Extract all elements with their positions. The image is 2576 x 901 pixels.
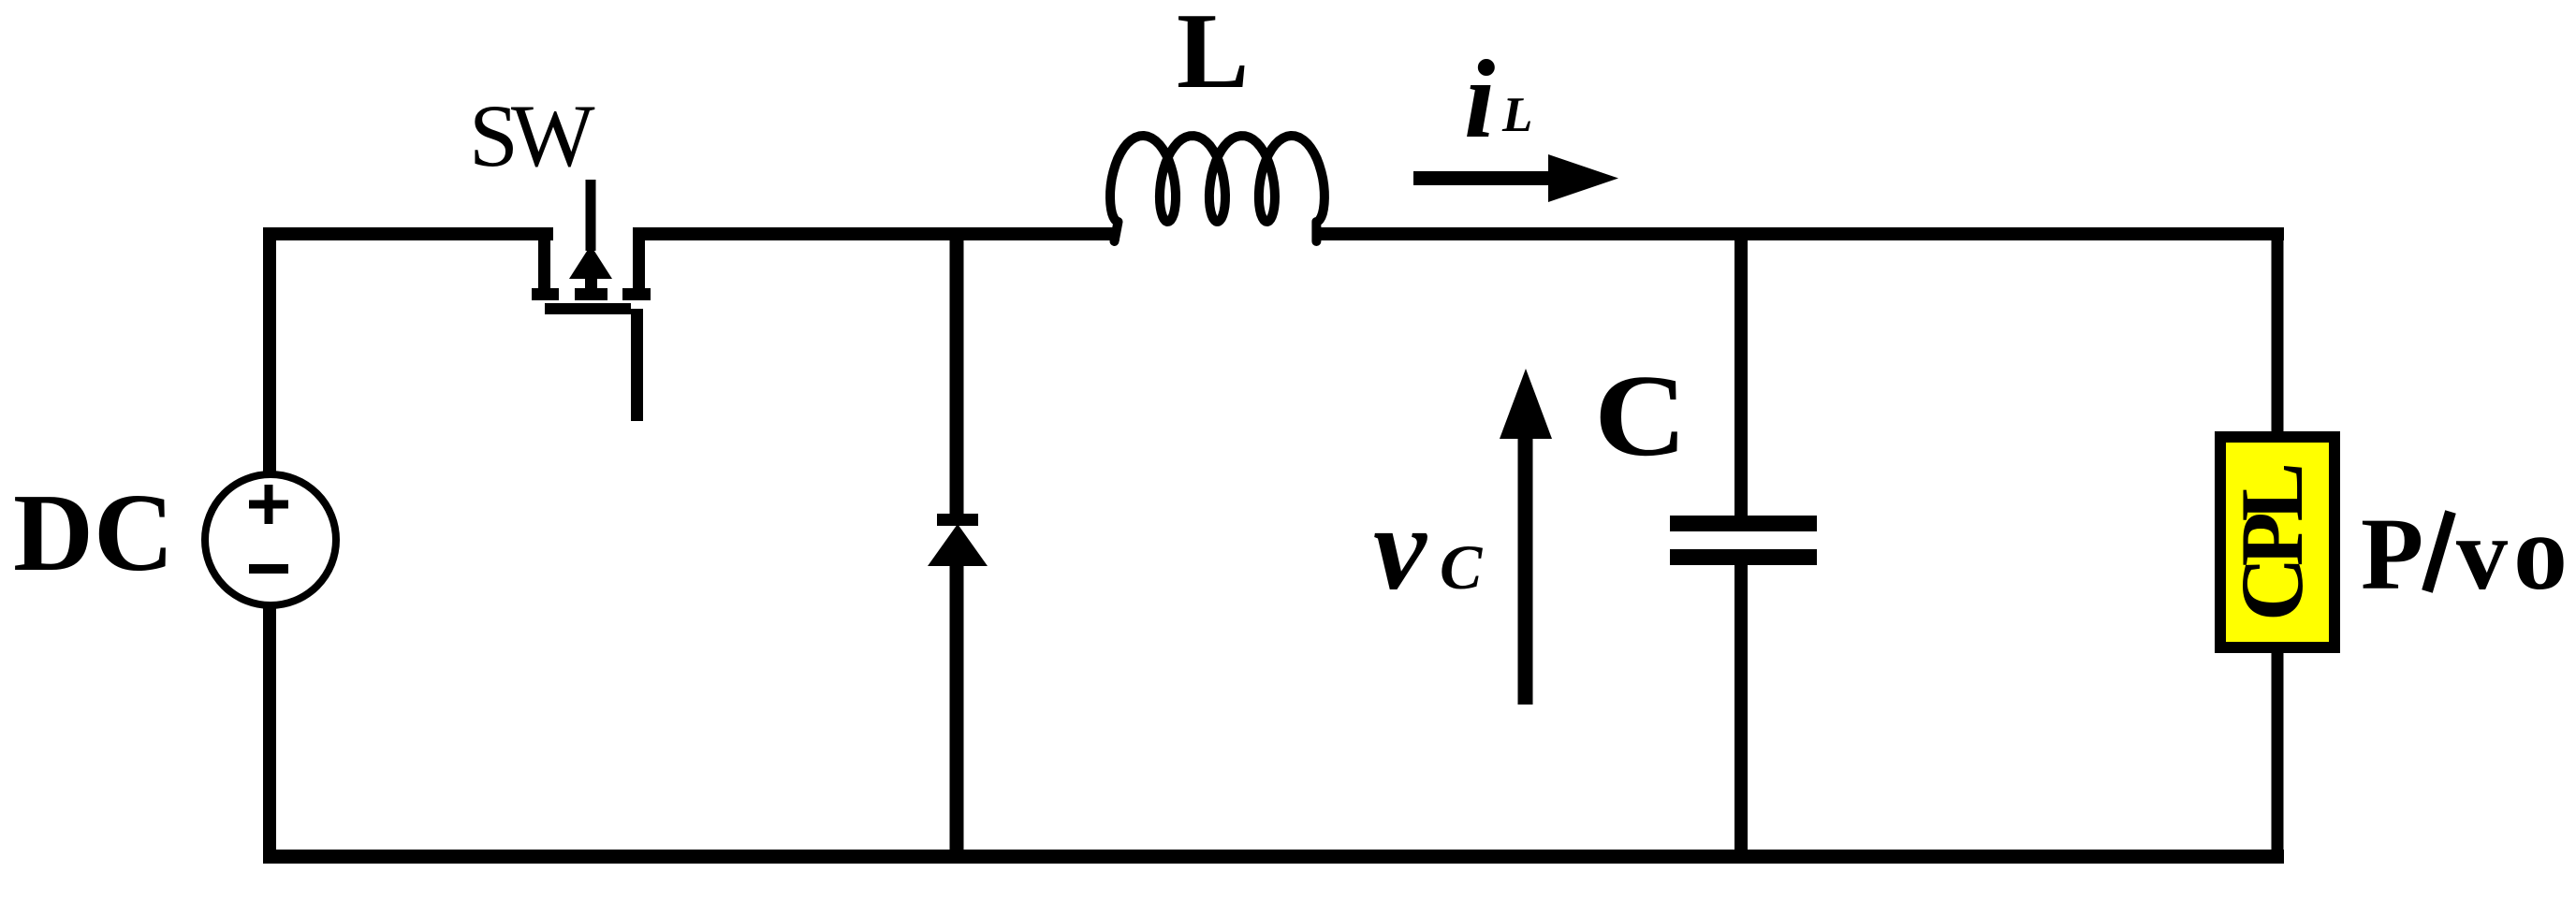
svg-text:C: C [1594, 352, 1687, 481]
source V1 circle [205, 474, 336, 605]
capacitor C bottom plate [1670, 549, 1817, 565]
transistor SW channel segment 2 [575, 288, 607, 300]
svg-text:o: o [2513, 493, 2568, 613]
diode D1 lower lead [950, 564, 964, 863]
svg-text:C: C [1440, 531, 1483, 603]
transistor SW arrow head [569, 245, 612, 279]
svg-text:v: v [2456, 497, 2508, 611]
transistor SW gate terminal lead [631, 309, 643, 421]
transistor SW arrow tail stub [585, 275, 597, 290]
source V1 minus sign [249, 564, 288, 574]
diode D1 cathode bar [937, 514, 978, 526]
arrow iL current direction [1413, 171, 1554, 185]
wire top-left segment (DC+ to switch) [263, 227, 553, 240]
capacitor C upper lead [1734, 227, 1748, 516]
transistor SW gate lead (middle, free end with arrow) [586, 180, 596, 251]
svg-text:i: i [1464, 36, 1495, 161]
source V1 plus sign [249, 485, 288, 524]
transistor SW right lead [633, 227, 645, 289]
svg-text:CPL: CPL [2222, 465, 2321, 621]
svg-text:v: v [1373, 482, 1427, 615]
capacitor C top plate [1670, 516, 1817, 531]
transistor SW left lead [538, 227, 550, 289]
svg-text:SW: SW [469, 86, 595, 185]
svg-text:P: P [2361, 497, 2423, 611]
wire left branch lower (DC source to bottom rail) [263, 604, 276, 863]
transistor SW gate bar [545, 303, 631, 314]
wire top segment inductor to top-right corner [1318, 227, 2284, 240]
capacitor C lower lead [1734, 565, 1748, 863]
transistor SW channel segment 1 [532, 288, 559, 300]
svg-text:DC: DC [13, 471, 174, 594]
wire right branch lower (CPL to bottom rail) [2272, 653, 2284, 863]
arrow vC voltage direction [1518, 433, 1533, 705]
wire left branch upper (corner to DC source) [263, 227, 276, 476]
wire right branch upper (top corner to CPL) [2272, 227, 2284, 431]
load CPL box [2220, 437, 2334, 647]
inductor L coil [1110, 136, 1325, 241]
diode D1 triangle [928, 524, 988, 566]
wire bottom rail [263, 850, 2284, 864]
transistor SW channel segment 3 [622, 288, 651, 300]
svg-text:L: L [1501, 88, 1532, 142]
diode D1 upper lead [950, 227, 964, 516]
wire top segment switch to inductor [633, 227, 1120, 240]
svg-text:L: L [1177, 0, 1249, 111]
